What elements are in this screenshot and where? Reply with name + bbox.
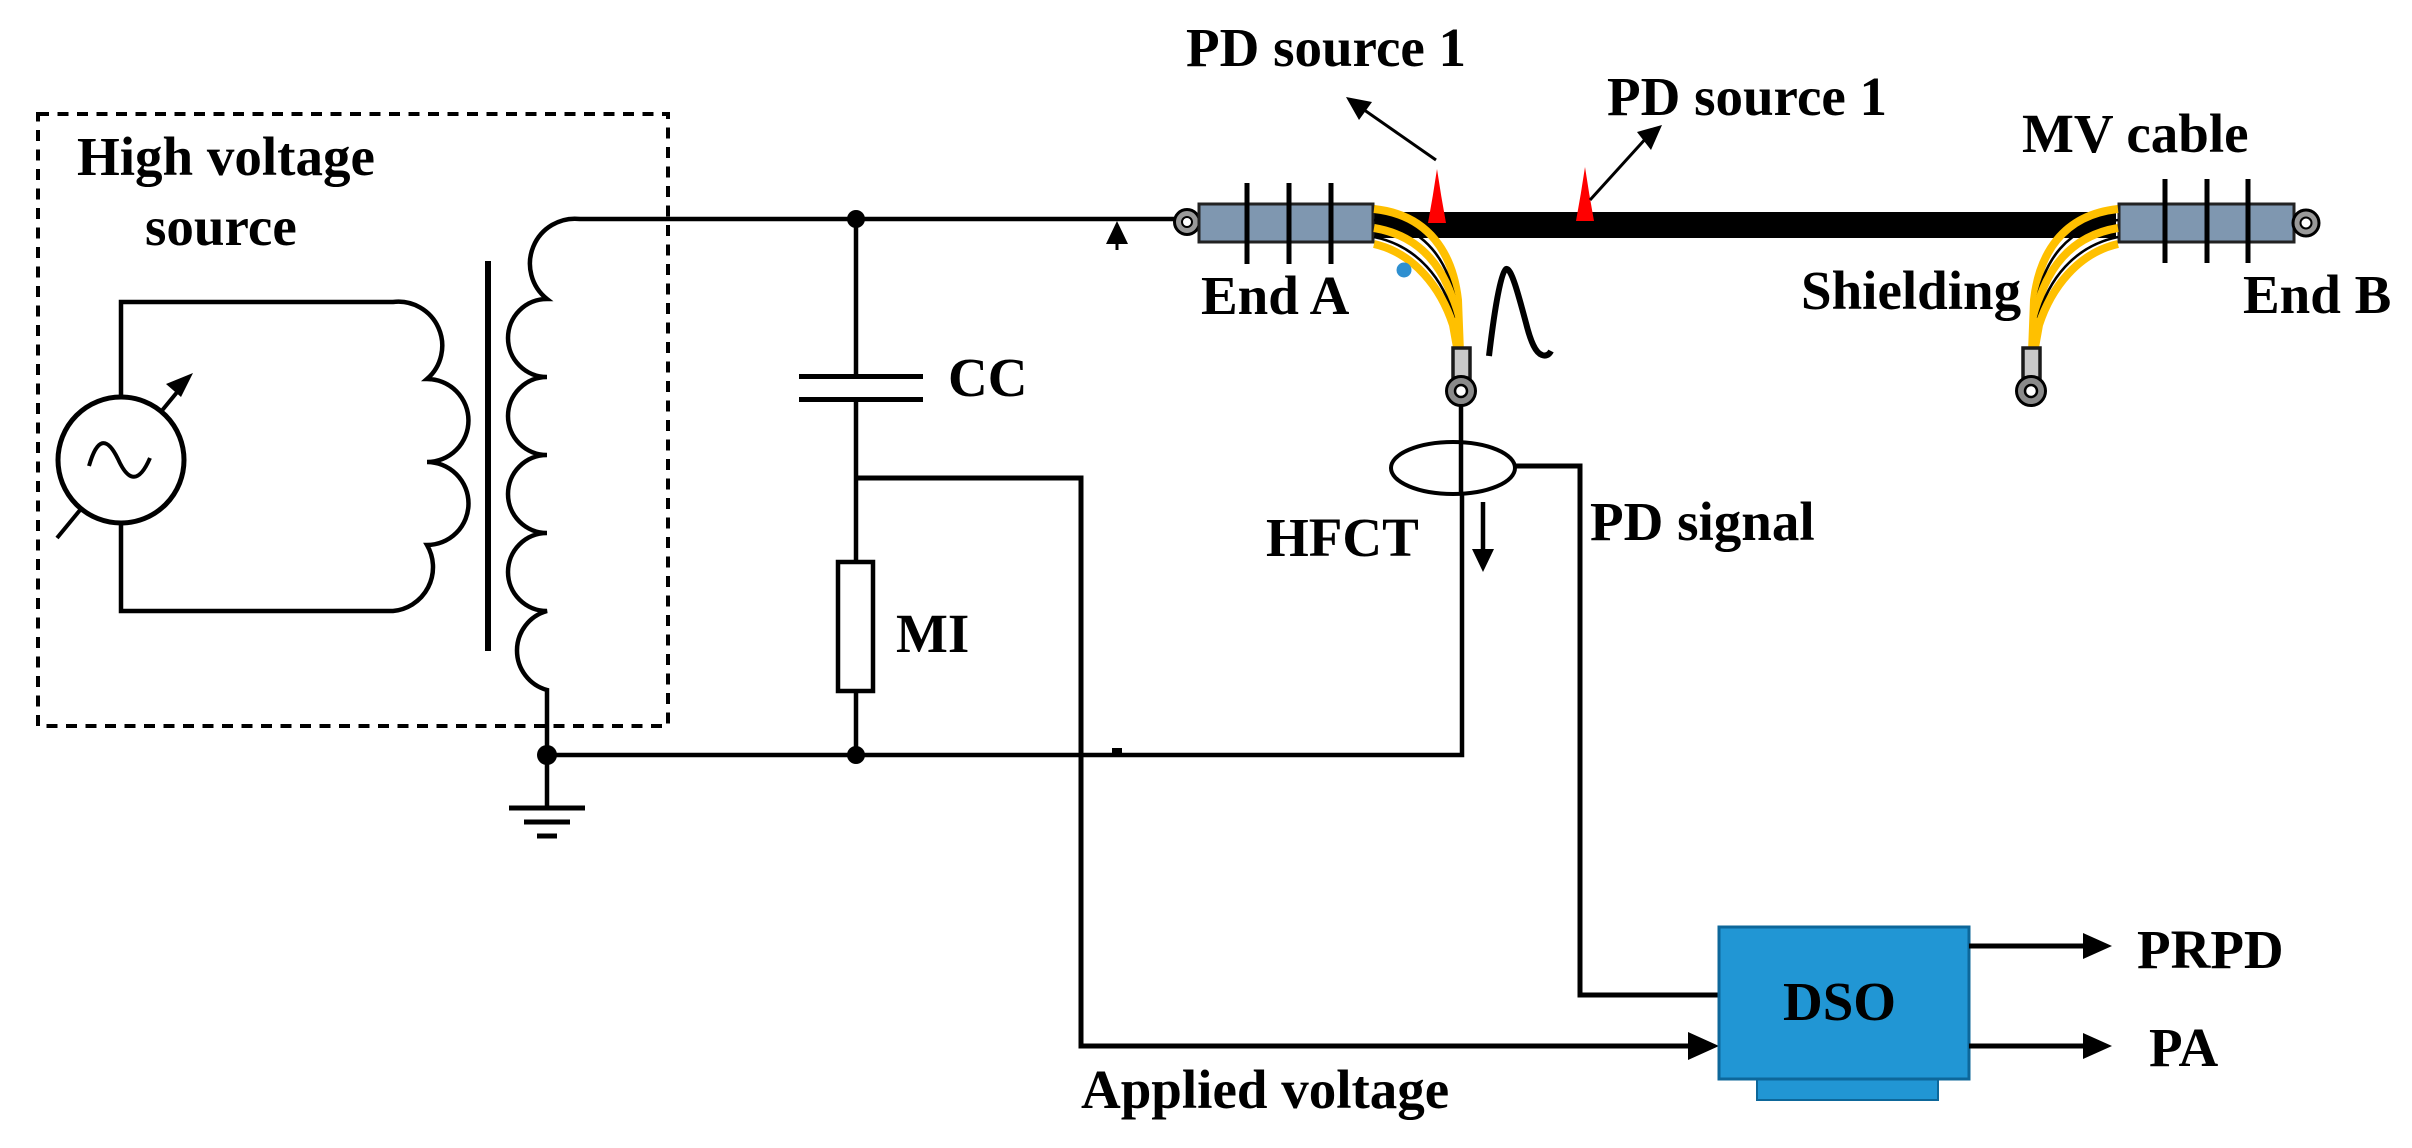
svg-text:PD source 1: PD source 1 bbox=[1186, 17, 1466, 78]
svg-text:PD signal: PD signal bbox=[1590, 491, 1815, 552]
svg-text:PA: PA bbox=[2149, 1017, 2219, 1078]
svg-text:PRPD: PRPD bbox=[2137, 919, 2284, 980]
svg-text:End B: End B bbox=[2243, 264, 2391, 325]
svg-text:PD source 1: PD source 1 bbox=[1607, 66, 1887, 127]
svg-text:DSO: DSO bbox=[1783, 971, 1896, 1032]
svg-text:HFCT: HFCT bbox=[1266, 507, 1419, 568]
svg-text:Applied voltage: Applied voltage bbox=[1081, 1059, 1449, 1120]
svg-text:End A: End A bbox=[1201, 265, 1350, 326]
svg-text:High voltage: High voltage bbox=[77, 126, 375, 187]
svg-text:Shielding: Shielding bbox=[1801, 260, 2021, 321]
svg-text:source: source bbox=[145, 196, 297, 257]
svg-text:MI: MI bbox=[896, 603, 969, 664]
svg-text:MV cable: MV cable bbox=[2022, 103, 2249, 164]
svg-text:CC: CC bbox=[948, 347, 1027, 408]
